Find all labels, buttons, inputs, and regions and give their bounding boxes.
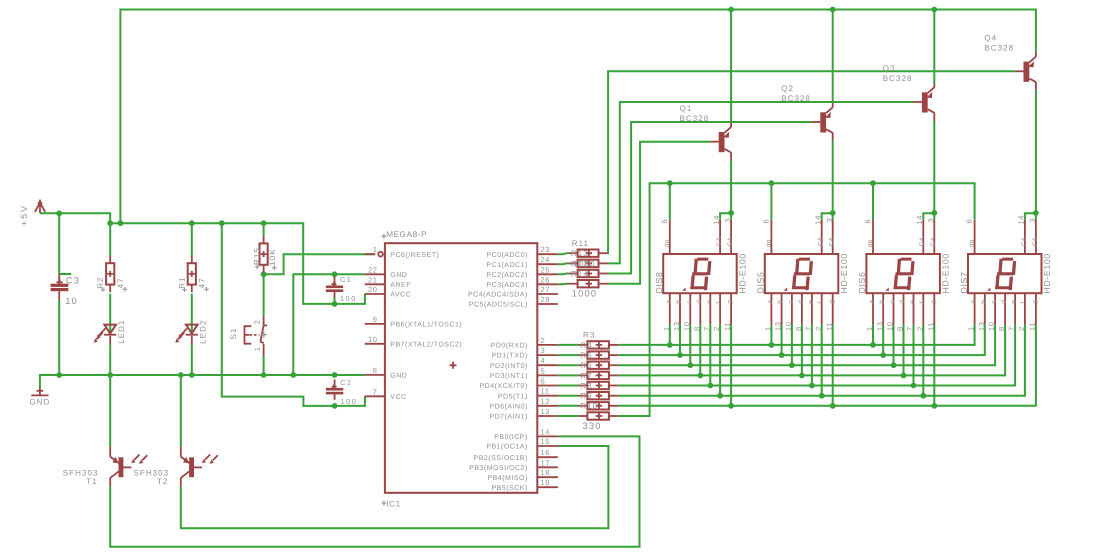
- junction DIS8 e on bus: [707, 383, 713, 389]
- svg-text:27: 27: [541, 285, 551, 294]
- junction DIS6 f on bus: [920, 393, 926, 399]
- wire R15 top: [263, 223, 265, 236]
- svg-text:7: 7: [1007, 326, 1016, 331]
- svg-text:PC5(ADC5/SCL): PC5(ADC5/SCL): [469, 301, 528, 309]
- svg-text:f: f: [817, 301, 824, 303]
- svg-text:13: 13: [977, 321, 986, 331]
- svg-text:1: 1: [662, 326, 671, 331]
- svg-text:13: 13: [541, 407, 551, 416]
- IC pin 16 PB2(SS/OC1B): [474, 448, 558, 462]
- svg-text:100: 100: [340, 294, 357, 303]
- svg-text:14: 14: [1017, 215, 1026, 225]
- svg-text:SFH303: SFH303: [134, 468, 170, 477]
- svg-text:3: 3: [927, 218, 936, 223]
- R15 origin crosses: [255, 265, 277, 270]
- IC pin 25 PC2(ADC2): [486, 265, 558, 279]
- DIS8 pin 3 CA: [723, 218, 734, 254]
- DIS7 pin 7 segment e: [1007, 293, 1018, 331]
- wire DIS7 CA pin14 jog: [1025, 213, 1036, 220]
- junction C1 top: [332, 271, 338, 277]
- wire IC pin26 to R11 resistor 4: [558, 283, 568, 286]
- wire DIS6 segment a drop: [872, 325, 874, 345]
- junction R15/S1/reset node: [261, 271, 267, 277]
- wire DIS5 segment a drop: [770, 325, 772, 345]
- svg-text:R5: R5: [580, 351, 592, 360]
- svg-text:DIS7: DIS7: [959, 272, 969, 294]
- svg-text:1: 1: [865, 326, 874, 331]
- wire DIS6 segment g drop: [933, 325, 935, 406]
- svg-text:9: 9: [373, 315, 378, 324]
- svg-text:d: d: [696, 300, 703, 304]
- wire segment bus a: [618, 325, 974, 345]
- resistor R11 element 2: [568, 260, 608, 267]
- resistor R3 element 1: [578, 341, 618, 348]
- 7-segment display DIS6 body: [866, 254, 940, 293]
- DIS6 pin 1 segment a: [865, 293, 876, 331]
- wire C3 top: [58, 213, 60, 274]
- wire Q3 emitter drop from top rail: [933, 10, 935, 84]
- svg-text:R7: R7: [580, 371, 592, 380]
- svg-text:15: 15: [541, 437, 551, 446]
- IC pin 19 PB5(SCK): [492, 478, 558, 492]
- wire DIS8 dp pin up: [669, 183, 671, 220]
- junction DIS6 d on bus: [901, 373, 907, 379]
- DIS5 pin 7 segment e: [804, 293, 815, 331]
- IC1 designator: [381, 500, 400, 509]
- wire DIS6 CA pin3 up: [933, 213, 935, 220]
- svg-text:2: 2: [252, 320, 261, 325]
- svg-text:a: a: [767, 300, 774, 304]
- wire DIS8 segment b drop: [679, 325, 681, 355]
- svg-text:PC4(ADC4/SDA): PC4(ADC4/SDA): [468, 291, 528, 299]
- wire T2 emitter loop to IC pin15: [181, 446, 609, 528]
- DIS8 pin 7 segment e: [702, 293, 713, 331]
- wire DIS7 CA pin3 up: [1035, 213, 1037, 220]
- svg-text:c: c: [991, 300, 998, 304]
- junction +5V rail top-rail drop: [118, 220, 124, 226]
- junction DIS8 a on bus: [667, 342, 673, 348]
- capacitor C1: [326, 277, 343, 298]
- svg-text:BC328: BC328: [680, 114, 710, 123]
- svg-text:10: 10: [886, 321, 895, 331]
- svg-text:f: f: [919, 301, 926, 303]
- svg-text:11: 11: [723, 322, 732, 331]
- junction dp net DIS8: [667, 180, 673, 186]
- DIS8 pin 11 segment g: [723, 293, 734, 331]
- svg-text:1: 1: [373, 245, 378, 254]
- svg-text:PB0(ICP): PB0(ICP): [494, 433, 528, 441]
- svg-text:1000: 1000: [572, 288, 597, 298]
- svg-text:DIS8: DIS8: [654, 272, 664, 294]
- wire DIS8 segment f drop: [719, 325, 721, 396]
- IC pin 24 PC1(ADC1): [486, 255, 558, 269]
- svg-text:21: 21: [368, 275, 378, 284]
- wire T1 emitter loop to IC pin14: [110, 436, 639, 546]
- wire IC pin to R3 resistor 8: [558, 415, 578, 417]
- svg-text:f: f: [1021, 301, 1028, 303]
- svg-text:g: g: [828, 300, 835, 304]
- svg-text:100: 100: [341, 397, 358, 406]
- 7-segment display DIS5 body: [765, 254, 839, 293]
- svg-text:19: 19: [541, 478, 551, 487]
- resistor R3 element 6: [578, 392, 618, 399]
- svg-text:HD-E100: HD-E100: [737, 253, 747, 293]
- svg-text:47: 47: [116, 277, 125, 288]
- DIS7 pin 3 CA: [1028, 218, 1039, 254]
- svg-text:CA: CA: [1021, 237, 1028, 247]
- wire GND rail: [40, 375, 365, 388]
- wire DIS5 CA pin3 up: [832, 213, 834, 220]
- svg-text:PC1(ADC1): PC1(ADC1): [486, 261, 527, 269]
- wire DIS6 segment f drop: [922, 325, 924, 396]
- svg-text:PC3(ADC3): PC3(ADC3): [486, 281, 527, 289]
- junction DIS5 common anode node: [830, 210, 836, 216]
- wire DIS5 CA pin14 jog: [822, 213, 833, 220]
- junction +5V rail VCC drop: [219, 220, 225, 226]
- svg-text:BC328: BC328: [883, 74, 913, 83]
- wire IC pin to R3 resistor 1: [558, 344, 578, 346]
- wire S1 bottom to GND rail: [263, 355, 265, 375]
- wire DIS8 CA pin14 jog: [720, 213, 731, 220]
- svg-text:a: a: [970, 300, 977, 304]
- wire DIS8 segment c drop: [689, 325, 691, 365]
- svg-text:e: e: [1011, 300, 1018, 304]
- IC pin 17 PB3(MOSI/OC2): [469, 458, 558, 472]
- IC1 MEGA8-P body: [385, 243, 537, 493]
- svg-text:LED2: LED2: [199, 320, 208, 344]
- DIS8 pin 1 segment a: [662, 293, 673, 331]
- junction DIS6 a on bus: [870, 342, 876, 348]
- svg-text:T1: T1: [86, 477, 97, 486]
- wire reset node to IC pin1: [264, 254, 376, 274]
- wire R2 to LED1: [109, 294, 111, 334]
- svg-text:CA: CA: [829, 237, 836, 247]
- svg-text:R6: R6: [580, 361, 592, 370]
- DIS5 pin 6 dp: [761, 219, 772, 254]
- wire DIS6 CA pin14 jog: [923, 213, 934, 220]
- resistor R3 element 4: [578, 372, 618, 379]
- svg-text:CA: CA: [818, 237, 825, 247]
- svg-text:CA: CA: [727, 237, 734, 247]
- svg-text:2: 2: [1017, 326, 1026, 331]
- junction top rail Q1: [728, 7, 734, 13]
- DIS6 pin 11 segment g: [926, 293, 937, 331]
- IC pin 2 PD0(RXD): [491, 336, 558, 350]
- svg-text:g: g: [930, 300, 937, 304]
- svg-text:3: 3: [825, 218, 834, 223]
- DIS6 pin 7 segment e: [906, 293, 917, 331]
- wire segment bus c: [618, 325, 995, 365]
- junction DIS5 f on bus: [819, 393, 825, 399]
- svg-text:PB6(XTAL1/TOSC1): PB6(XTAL1/TOSC1): [390, 321, 462, 329]
- wire DIS5 dp pin up: [770, 183, 772, 220]
- svg-text:R1: R1: [177, 276, 186, 288]
- svg-text:dp: dp: [969, 239, 976, 247]
- IC pin 1 PC6(/RESET): [365, 245, 440, 259]
- wire IC pin to R3 resistor 6: [558, 395, 578, 397]
- svg-text:24: 24: [541, 255, 551, 264]
- wire DIS6 segment d drop: [903, 325, 905, 376]
- junction DIS6 b on bus: [880, 352, 886, 358]
- svg-text:b: b: [980, 300, 987, 304]
- junction GND rail C2: [332, 372, 338, 378]
- svg-text:R2: R2: [96, 276, 105, 288]
- svg-text:CA: CA: [716, 237, 723, 247]
- wire Q4 collector to DIS7 CA: [1035, 90, 1037, 213]
- junction DIS7 common anode node: [1033, 210, 1039, 216]
- svg-text:23: 23: [541, 245, 551, 254]
- svg-text:18: 18: [541, 468, 551, 477]
- resistor R11 element 3: [568, 270, 608, 277]
- IC pin 14 PB0(ICP): [494, 427, 558, 441]
- wire R1 to LED2: [191, 294, 193, 334]
- svg-text:5: 5: [541, 366, 546, 375]
- IC pin 22 GND: [365, 265, 408, 279]
- resistor R11 element 1: [568, 250, 608, 257]
- wire LED2 to GND rail: [191, 345, 193, 375]
- svg-text:7: 7: [804, 326, 813, 331]
- svg-text:1000: 1000: [574, 259, 596, 268]
- wire DIS5 segment b drop: [781, 325, 783, 355]
- IC pin 26 PC3(ADC3): [486, 275, 558, 289]
- svg-text:PB1(OC1A): PB1(OC1A): [486, 443, 527, 451]
- svg-text:a: a: [869, 300, 876, 304]
- svg-text:6: 6: [863, 219, 872, 224]
- svg-text:e: e: [706, 300, 713, 304]
- junction DIS8 f on bus: [717, 393, 723, 399]
- wire DIS8 segment g drop: [730, 325, 732, 406]
- svg-text:6: 6: [660, 219, 669, 224]
- resistor R1: [188, 256, 196, 292]
- svg-text:b: b: [676, 300, 683, 304]
- svg-text:f: f: [716, 301, 723, 303]
- wire T2 collector from GND rail: [180, 375, 182, 446]
- svg-text:PB7(XTAL2/TOSC2): PB7(XTAL2/TOSC2): [390, 340, 462, 348]
- wire DIS6 segment e drop: [913, 325, 915, 386]
- wire segment bus b: [618, 325, 985, 355]
- junction DIS5 c on bus: [789, 362, 795, 368]
- svg-text:HD-E100: HD-E100: [941, 253, 951, 293]
- svg-text:R4: R4: [580, 341, 592, 350]
- svg-text:CA: CA: [930, 237, 937, 247]
- DIS7 pin 6 dp: [965, 219, 976, 254]
- svg-text:8: 8: [794, 326, 803, 331]
- svg-text:GND: GND: [390, 272, 407, 279]
- resistor R11 element 4: [568, 280, 608, 287]
- junction GND rail S1: [261, 372, 267, 378]
- svg-text:14: 14: [541, 427, 551, 436]
- wire dp net from R3 row8 up and across displays: [618, 183, 974, 416]
- DIS8 pin 2 segment f: [712, 293, 723, 331]
- DIS6 pin 2 segment f: [915, 293, 926, 331]
- svg-text:8: 8: [692, 326, 701, 331]
- svg-text:330: 330: [583, 421, 602, 431]
- svg-text:6: 6: [965, 219, 974, 224]
- wire C3 bottom to GND rail: [58, 300, 60, 375]
- wire segment bus g: [618, 325, 1036, 406]
- svg-text:2: 2: [814, 326, 823, 331]
- wire IC pin to R3 resistor 7: [558, 405, 578, 407]
- LED LED2: [175, 325, 198, 345]
- wire segment bus e: [618, 325, 1015, 386]
- svg-text:C3: C3: [66, 276, 80, 286]
- wire R11 resistor 3 to Q2 base: [608, 122, 812, 274]
- wire R2 top: [109, 223, 111, 256]
- svg-text:d: d: [1001, 300, 1008, 304]
- IC pin 3 PD1(TXD): [492, 346, 558, 360]
- DIS5 pin 3 CA: [825, 218, 836, 254]
- svg-text:GND: GND: [29, 398, 50, 407]
- wire Q2 collector to DIS5 CA: [832, 141, 834, 213]
- resistor R15: [260, 236, 268, 272]
- wire DIS6 segment b drop: [882, 325, 884, 355]
- svg-text:PC2(ADC2): PC2(ADC2): [486, 271, 527, 279]
- svg-text:AVCC: AVCC: [390, 292, 411, 299]
- wire T1 collector from GND rail: [109, 375, 111, 446]
- svg-text:1: 1: [764, 326, 773, 331]
- svg-text:GND: GND: [390, 373, 407, 380]
- IC pin 23 PC0(ADC0): [486, 245, 558, 259]
- LED LED1: [94, 325, 117, 345]
- 7-segment display DIS7 body: [968, 254, 1042, 293]
- DIS6 pin 3 CA: [927, 218, 938, 254]
- svg-text:PD5(T1): PD5(T1): [498, 392, 528, 400]
- wire Q1 emitter drop from top rail: [730, 10, 732, 123]
- svg-text:4: 4: [541, 356, 546, 365]
- resistor R3 element 8: [578, 412, 618, 419]
- DIS5 pin 10 segment c: [784, 293, 795, 331]
- wire IC pin to R3 resistor 2: [558, 354, 578, 356]
- DIS5 digit 8 with dp: [784, 258, 813, 291]
- wire IC pin24 to R11 resistor 2: [558, 262, 568, 265]
- svg-text:R14: R14: [571, 269, 589, 278]
- svg-text:PD1(TXD): PD1(TXD): [492, 352, 528, 360]
- MEGA8-P title: [381, 230, 427, 239]
- DIS5 pin 13 segment b: [774, 293, 785, 331]
- IC pin 27 PC4(ADC4/SDA): [468, 285, 558, 299]
- svg-text:13: 13: [774, 321, 783, 331]
- DIS8 pin 13 segment b: [672, 293, 683, 331]
- wire DIS8 segment e drop: [709, 325, 711, 386]
- junction +5V rail R2: [107, 220, 113, 226]
- DIS7 pin 1 segment a: [967, 293, 978, 331]
- DIS8 digit 8 with dp: [682, 258, 711, 291]
- svg-text:b: b: [879, 300, 886, 304]
- DIS7 pin 2 segment f: [1017, 293, 1028, 331]
- svg-text:C1: C1: [340, 275, 352, 284]
- svg-text:HD-E100: HD-E100: [1042, 253, 1052, 293]
- junction C2 bottom: [332, 403, 338, 409]
- phototransistor T2 SFH303: [181, 446, 218, 486]
- IC pin 9 PB6(XTAL1/TOSC1): [365, 315, 463, 329]
- svg-text:g: g: [1032, 300, 1039, 304]
- resistor R3 element 7: [578, 402, 618, 409]
- svg-text:R8: R8: [580, 381, 592, 390]
- junction DIS8 g on bus: [728, 403, 734, 409]
- IC pin 13 PD7(AIN1): [489, 407, 557, 421]
- resistor R3 element 2: [578, 351, 618, 358]
- svg-text:BC328: BC328: [781, 94, 811, 103]
- svg-text:7: 7: [373, 387, 378, 396]
- svg-text:PB5(SCK): PB5(SCK): [492, 484, 528, 492]
- svg-text:1: 1: [967, 326, 976, 331]
- junction DIS5 b on bus: [779, 352, 785, 358]
- wire C1 top pin: [334, 274, 336, 277]
- svg-text:R9: R9: [580, 392, 592, 401]
- svg-text:a: a: [665, 300, 672, 304]
- IC pin 10 PB7(XTAL2/TOSC2): [365, 335, 463, 349]
- svg-text:3: 3: [723, 218, 732, 223]
- svg-text:g: g: [727, 300, 734, 304]
- wire DIS8 segment d drop: [699, 325, 701, 376]
- junction C1 bottom / AVCC run: [332, 301, 338, 307]
- svg-text:LED1: LED1: [117, 320, 126, 344]
- svg-text:8: 8: [896, 326, 905, 331]
- DIS8 pin 6 dp: [660, 219, 671, 254]
- junction GND rail T2: [178, 372, 184, 378]
- svg-text:3: 3: [541, 346, 546, 355]
- resistor R3 element 3: [578, 362, 618, 369]
- wire IC pin25 to R11 resistor 3: [558, 273, 568, 276]
- wire DIS5 segment g drop: [832, 325, 834, 406]
- svg-text:Q1: Q1: [680, 104, 693, 113]
- svg-text:6: 6: [761, 219, 770, 224]
- junction DIS8 common anode node: [728, 210, 734, 216]
- junction dp net DIS6: [870, 180, 876, 186]
- IC pin 21 AREF: [365, 275, 411, 289]
- wire Q3 collector to DIS6 CA: [933, 121, 935, 213]
- svg-text:2: 2: [712, 326, 721, 331]
- DIS7 digit 8 with dp: [987, 258, 1016, 291]
- svg-text:c: c: [788, 300, 795, 304]
- R12 label overlapped: [571, 259, 596, 268]
- wire IC pin23 to R11 resistor 1: [558, 253, 568, 254]
- svg-text:13: 13: [672, 321, 681, 331]
- svg-text:PB3(MOSI/OC2): PB3(MOSI/OC2): [469, 464, 528, 472]
- svg-text:dp: dp: [664, 239, 671, 247]
- DIS7 pin 10 segment c: [987, 293, 998, 331]
- svg-text:26: 26: [541, 275, 551, 284]
- DIS7 pin 8 segment d: [997, 293, 1008, 331]
- junction GND rail LED1/T1: [107, 372, 113, 378]
- svg-text:PD4(XCK/T0): PD4(XCK/T0): [480, 382, 528, 390]
- svg-text:10: 10: [368, 335, 378, 344]
- svg-text:PD0(RXD): PD0(RXD): [491, 342, 528, 350]
- DIS6 pin 6 dp: [863, 219, 874, 254]
- svg-text:c: c: [889, 300, 896, 304]
- svg-text:c: c: [686, 300, 693, 304]
- junction DIS8 b on bus: [677, 352, 683, 358]
- 7-segment display DIS8 body: [663, 254, 737, 293]
- DIS5 pin 1 segment a: [764, 293, 775, 331]
- svg-text:DIS6: DIS6: [857, 272, 867, 294]
- IC pin 20 AVCC: [365, 285, 412, 299]
- IC pin 18 PB4(MISO): [488, 468, 558, 482]
- svg-text:22: 22: [368, 265, 378, 274]
- junction DIS6 e on bus: [911, 383, 917, 389]
- wire C1 bottom: [334, 297, 336, 304]
- junction GND rail LED2: [189, 372, 195, 378]
- phototransistor T1 SFH303: [110, 446, 147, 486]
- transistor Q3 BC328 PNP: [914, 83, 935, 121]
- svg-text:dp: dp: [867, 239, 874, 247]
- junction DIS5 g on bus: [830, 403, 836, 409]
- R1 origin crosses: [182, 287, 209, 292]
- svg-text:IC1: IC1: [386, 500, 400, 509]
- svg-text:PB2(SS/OC1B): PB2(SS/OC1B): [474, 454, 528, 462]
- svg-text:13: 13: [875, 321, 884, 331]
- svg-text:10: 10: [682, 321, 691, 331]
